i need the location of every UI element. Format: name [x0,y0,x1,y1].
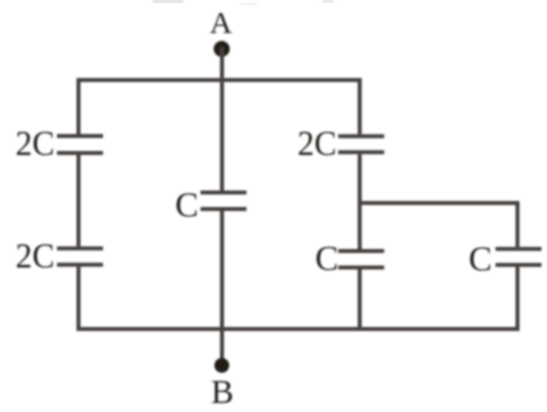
svg-text:2C: 2C [16,237,55,276]
svg-text:2C: 2C [16,124,55,163]
svg-text:B: B [211,374,234,411]
wire far-right vertical lower segment [516,267,520,331]
wire right vertical lower segment [358,270,362,332]
capacitor 2C (bottom-left) plates [57,246,103,266]
wire left vertical upper segment [77,78,81,134]
svg-text:C: C [315,239,338,278]
wire right vertical middle segment [358,154,362,249]
node B [214,358,229,373]
capacitor 2C (right branch) plates [338,134,384,154]
capacitor 2C (top-left) plates [57,134,103,155]
wire right vertical upper segment [358,78,362,134]
wire left vertical lower segment [77,267,81,331]
faint cropped-text remnants at very top (unlabelled artifacts drawn before first labelled element) [153,0,183,3]
svg-text:C: C [469,240,492,279]
svg-text:A: A [210,5,233,40]
wire middle vertical upper segment [220,80,224,191]
wire top horizontal rail [77,78,362,82]
capacitor C (far right) plates [496,247,542,267]
wire bottom horizontal rail [77,327,520,331]
wire inner-loop top horizontal [358,201,520,205]
svg-text:C: C [175,186,198,225]
wire middle vertical lower segment [220,211,224,366]
wire from node A down to top rail [220,47,224,80]
svg-text:2C: 2C [298,124,337,163]
wire left vertical middle segment [77,155,81,246]
capacitor C (middle) plates [201,191,247,212]
node A [214,41,230,57]
capacitor C (right branch) plates [338,249,384,270]
wire far-right vertical upper segment [516,201,520,247]
